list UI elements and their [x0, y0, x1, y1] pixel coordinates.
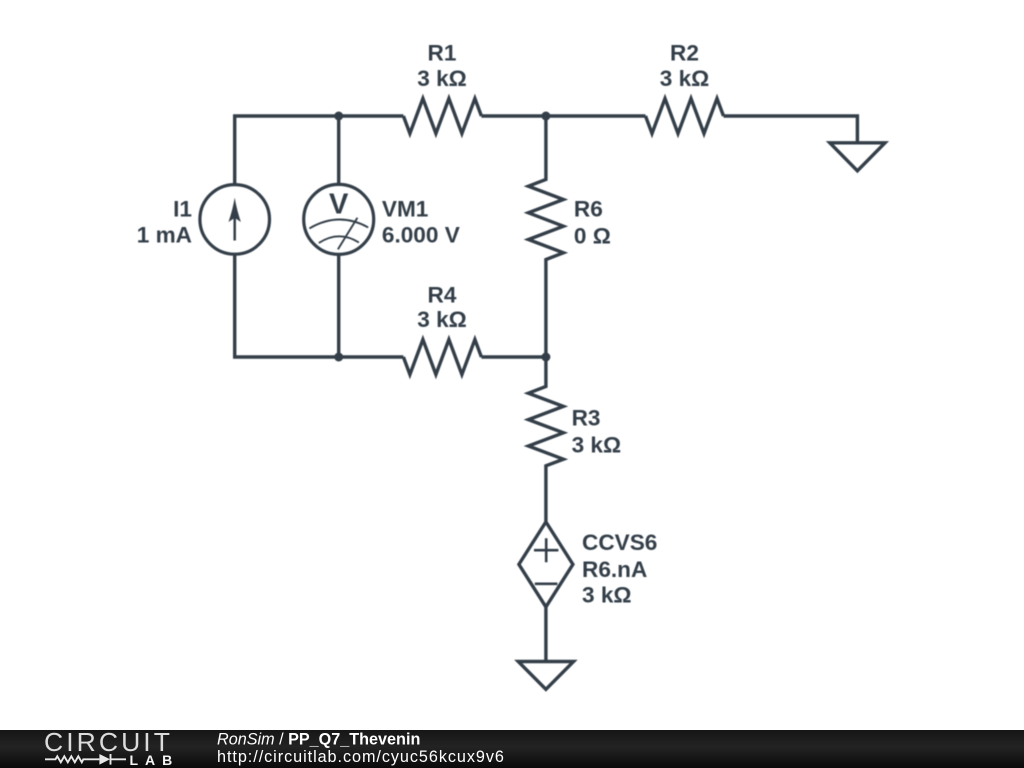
ground (bottom, at CCVS6)	[518, 662, 573, 690]
resistor R2	[646, 99, 724, 134]
svg-text:R6.nA: R6.nA	[582, 557, 647, 582]
node junction middle-left (VM1/middle wire)	[334, 353, 343, 362]
svg-text:6.000 V: 6.000 V	[382, 223, 460, 248]
svg-text:3 kΩ: 3 kΩ	[660, 66, 710, 91]
svg-text:0 Ω: 0 Ω	[574, 223, 611, 248]
node junction top-right (R6/top wire)	[541, 112, 550, 121]
wire: CCVS6 bottom lead to ground	[544, 607, 547, 661]
svg-text:http://circuitlab.com/cyuc56kc: http://circuitlab.com/cyuc56kcux9v6	[217, 748, 505, 766]
current source I1 arrow	[229, 198, 241, 241]
current source I1 circle	[200, 185, 270, 255]
resistor R1	[403, 99, 481, 134]
svg-text:R3: R3	[572, 405, 601, 430]
svg-text:V: V	[329, 188, 349, 220]
CircuitLab logo schematic line (resistor + diode)	[45, 754, 126, 765]
svg-text:3 kΩ: 3 kΩ	[572, 433, 622, 458]
wire: I1 bottom lead + bottom-left segment to R4	[235, 254, 404, 357]
svg-text:3 kΩ: 3 kΩ	[582, 582, 632, 607]
resistor R6 with leads	[528, 116, 563, 357]
wire: VM1 top lead	[337, 116, 340, 184]
resistor R3 with leads	[528, 357, 563, 522]
wire: R4 to middle node	[481, 355, 546, 358]
svg-text:R1: R1	[428, 40, 457, 65]
svg-text:R4: R4	[428, 283, 457, 308]
svg-text:3 kΩ: 3 kΩ	[417, 307, 467, 332]
CircuitLab logo diode triangle	[99, 754, 110, 765]
svg-text:CCVS6: CCVS6	[582, 530, 657, 555]
node junction top-left (VM1/top wire)	[334, 112, 343, 121]
voltmeter VM1 needle	[338, 218, 358, 250]
resistor R4	[403, 340, 481, 375]
wire: VM1 bottom lead	[337, 254, 340, 357]
voltmeter VM1 circle	[304, 184, 374, 254]
ground (right, at R2)	[830, 143, 885, 171]
svg-text:I1: I1	[173, 196, 192, 221]
svg-text:3 kΩ: 3 kΩ	[417, 66, 467, 91]
svg-text:LAB: LAB	[130, 752, 180, 768]
svg-text:R6: R6	[574, 197, 603, 222]
voltmeter VM1 meter arc lower	[319, 236, 359, 243]
dependent source CCVS6 diamond	[519, 522, 573, 607]
wire: I1 top lead + top-left segment to R1	[235, 116, 404, 185]
svg-text:VM1: VM1	[382, 196, 428, 221]
CCVS6 plus sign	[534, 538, 558, 562]
CCVS6 minus sign	[535, 582, 558, 585]
svg-text:1 mA: 1 mA	[137, 223, 192, 248]
wire: R2 to right ground corner	[724, 116, 858, 143]
node junction middle-right (R6/R4/R3)	[541, 353, 550, 362]
svg-text:R2: R2	[670, 40, 699, 65]
voltmeter VM1 meter arc upper	[309, 219, 368, 228]
wire: top segment R1 to R2 through node	[481, 114, 645, 117]
svg-text:RonSim / PP_Q7_Thevenin: RonSim / PP_Q7_Thevenin	[217, 730, 420, 748]
